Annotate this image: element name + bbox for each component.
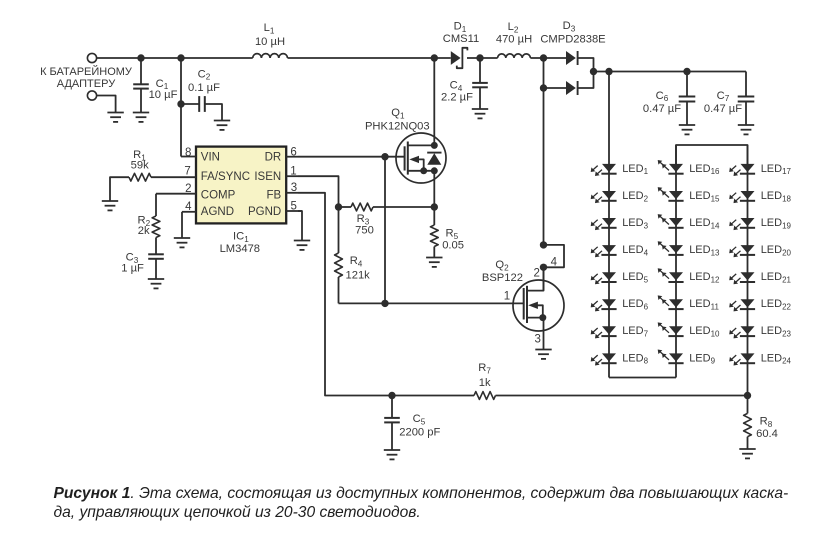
diode D1 [443, 20, 479, 68]
Q2 pin 1 label [504, 291, 510, 303]
LED LED15 [658, 187, 720, 203]
ground C7 [738, 125, 754, 134]
Q2 arrow lead [528, 302, 543, 318]
LED LED12 [658, 268, 720, 284]
Q2 gate bar [523, 288, 525, 320]
Q2 source lead [527, 317, 544, 319]
LED LED14 [658, 214, 720, 230]
svg-text:2: 2 [533, 268, 539, 280]
wire D3 branch down [543, 58, 545, 245]
wire slope riser [384, 157, 386, 304]
svg-text:121k: 121k [346, 270, 371, 282]
capacitor C2 [181, 68, 222, 120]
ground C3 [148, 279, 164, 288]
IC1 pin 2 stub [156, 183, 196, 195]
LED LED1 [591, 163, 649, 176]
wire L1 to D1 [288, 57, 451, 59]
inductor L1 [253, 22, 288, 58]
svg-text:10 µF: 10 µF [149, 89, 178, 101]
svg-text:59k: 59k [131, 160, 149, 172]
Q1 drain lead [408, 144, 435, 146]
wire L2 to D3 [530, 57, 566, 59]
LED LED7 [591, 325, 649, 338]
capacitor C6 [643, 72, 695, 126]
resistor R5 [430, 207, 464, 258]
IC1 pin 6 stub [286, 147, 298, 159]
Q1 source node [431, 167, 438, 174]
LED LED5 [591, 271, 649, 284]
node C2 tap [177, 100, 184, 107]
svg-text:750: 750 [355, 225, 374, 237]
LED LED6 [591, 298, 649, 311]
LED LED9 [658, 350, 716, 366]
node output rail left [590, 68, 597, 75]
wire gate drive rail [339, 302, 524, 304]
IC1 pin names left [201, 152, 250, 218]
input terminal plus [87, 53, 96, 62]
node C4 top [476, 54, 483, 61]
svg-text:1k: 1k [479, 377, 491, 389]
wire Q2 source to ground [543, 318, 545, 350]
IC1 pin names right [248, 152, 282, 218]
Q1 channel bar [407, 142, 409, 175]
svg-text:К БАТАРЕЙНОМУ: К БАТАРЕЙНОМУ [40, 65, 133, 78]
svg-text:3: 3 [291, 182, 297, 194]
ground C5 [384, 450, 400, 459]
svg-text:AGND: AGND [201, 206, 234, 218]
caption text [54, 485, 789, 521]
wire LED column 2 [675, 145, 677, 378]
LED LED22 [729, 298, 791, 311]
svg-text:ISEN: ISEN [254, 171, 281, 183]
svg-text:4: 4 [551, 257, 558, 269]
input terminal minus [87, 91, 96, 100]
svg-text:FB: FB [266, 189, 281, 201]
svg-text:да, управляющих цепочкой из 20: да, управляющих цепочкой из 20-30 светод… [54, 504, 421, 521]
ground R8 [739, 449, 755, 458]
LED LED24 [729, 352, 791, 365]
wire D3 upper out [578, 58, 594, 72]
svg-text:7: 7 [184, 166, 190, 178]
ground R5 [426, 258, 442, 267]
LED LED10 [658, 322, 720, 338]
IC1 pin 3 stub [286, 182, 298, 194]
svg-text:0.47 µF: 0.47 µF [643, 103, 681, 115]
svg-text:BSP122: BSP122 [482, 272, 523, 284]
node C6 top [683, 68, 690, 75]
IC1 pin 1 stub [286, 165, 298, 177]
diode D3 lower [544, 81, 578, 95]
wire DR to Q1 gate [298, 156, 405, 158]
svg-text:6: 6 [290, 147, 296, 159]
capacitor C1 [133, 58, 177, 113]
IC1 label [220, 231, 260, 256]
resistor R3 [339, 203, 435, 237]
LED LED23 [729, 325, 791, 338]
Q1 source lead [408, 170, 435, 172]
LED LED11 [658, 295, 720, 311]
ground C4 [472, 109, 488, 118]
node slope bottom [381, 300, 388, 307]
svg-text:1: 1 [290, 165, 296, 177]
wire LED top bracket [676, 145, 748, 168]
wire minus terminal to ground [97, 96, 116, 113]
svg-text:1: 1 [504, 291, 510, 303]
wire Q1 vertical [433, 58, 435, 207]
transistor Q1 body [365, 107, 446, 183]
wire D3 lower out [578, 72, 594, 89]
svg-text:5: 5 [290, 200, 296, 212]
LED LED20 [729, 244, 791, 257]
svg-text:8: 8 [185, 147, 191, 159]
LED LED4 [591, 244, 649, 257]
wire output rail [594, 71, 747, 73]
diode D3 upper [540, 20, 605, 65]
capacitor C7 [704, 72, 754, 126]
svg-text:VIN: VIN [201, 152, 220, 164]
svg-text:0.47 µF: 0.47 µF [704, 103, 742, 115]
wire LED bottom bracket [609, 377, 676, 379]
node LED column 1 top [605, 68, 612, 75]
svg-text:Рисунок 1. Эта схема, состояща: Рисунок 1. Эта схема, состоящая из досту… [54, 485, 789, 502]
svg-text:PGND: PGND [248, 206, 281, 218]
ground input [107, 113, 123, 122]
capacitor C3 [121, 252, 164, 279]
Q2 pin 3 label [534, 334, 540, 346]
IC1 pin 7 stub [151, 166, 196, 178]
svg-text:2200 pF: 2200 pF [399, 427, 440, 439]
svg-text:CMPD2838E: CMPD2838E [540, 33, 605, 45]
Q2 pin 2 label [533, 268, 539, 280]
svg-text:10 µH: 10 µH [255, 36, 285, 48]
Q2 pin4 loop [544, 245, 565, 269]
LED LED16 [658, 160, 720, 176]
svg-text:DR: DR [265, 152, 282, 164]
wire Q2 drain [543, 267, 545, 290]
Q1 arrow lead [409, 156, 423, 171]
node D3 bottom anode [540, 84, 547, 91]
svg-text:PHK12NQ03: PHK12NQ03 [365, 120, 430, 132]
Q1 drain node [431, 142, 438, 149]
node Q2 loop bottom [540, 264, 547, 271]
LED LED13 [658, 241, 720, 257]
Q1 gate bar [404, 146, 406, 170]
svg-text:470 µH: 470 µH [496, 33, 532, 45]
ground C2 [214, 121, 230, 130]
transistor Q2 body [482, 259, 564, 331]
IC1 pin 5 stub [286, 200, 302, 212]
node D3 top anode [540, 54, 547, 61]
ground C6 [679, 125, 695, 134]
LED LED18 [729, 190, 791, 203]
resistor R1 [110, 149, 151, 201]
resistor R4 [335, 207, 371, 303]
ground Q2 [535, 350, 551, 359]
Q2 source node [539, 314, 546, 321]
capacitor C5 [384, 396, 440, 451]
node C5 top [388, 392, 395, 399]
node R3 left [335, 203, 342, 210]
ground R1 [102, 201, 118, 210]
label battery adapter [40, 65, 133, 90]
wire LED column 3 [747, 145, 749, 396]
IC1 pin 8 stub [181, 147, 196, 159]
svg-text:0.05: 0.05 [442, 239, 464, 251]
resistor R7 [392, 362, 748, 399]
wire top rail [97, 57, 253, 59]
ground PGND [294, 211, 310, 250]
svg-text:2: 2 [185, 183, 191, 195]
wire D1 to L2 [467, 57, 498, 59]
node Q1 drain rail [431, 54, 438, 61]
LED LED19 [729, 217, 791, 230]
node R8 top [744, 392, 751, 399]
wire FB [298, 193, 392, 396]
LED LED17 [729, 163, 791, 176]
svg-text:COMP: COMP [201, 189, 236, 201]
node R5 top [431, 203, 438, 210]
LED LED21 [729, 271, 791, 284]
svg-text:FA/SYNC: FA/SYNC [201, 171, 250, 183]
resistor R2 [137, 194, 159, 255]
svg-text:2k: 2k [138, 225, 150, 237]
LED LED2 [591, 190, 649, 203]
svg-text:CMS11: CMS11 [443, 33, 479, 45]
wire ISEN [298, 176, 339, 207]
svg-text:3: 3 [534, 334, 540, 346]
ground C1 [133, 113, 149, 122]
svg-text:LM3478: LM3478 [220, 243, 260, 255]
node Q2 loop top [540, 241, 547, 248]
svg-text:2.2 µF: 2.2 µF [441, 91, 473, 103]
LED LED3 [591, 217, 649, 230]
Q2 channel bar [526, 286, 528, 323]
Q1 arrow node [420, 167, 427, 174]
Q1 body diode [427, 153, 441, 165]
svg-text:1 µF: 1 µF [121, 263, 144, 275]
svg-text:4: 4 [185, 201, 192, 213]
node C1 top [137, 54, 144, 61]
svg-text:АДАПТЕРУ: АДАПТЕРУ [57, 78, 116, 90]
svg-text:60.4: 60.4 [756, 428, 778, 440]
IC IC1 LM3478 body [196, 147, 286, 224]
resistor R8 [744, 396, 778, 450]
wire VIN branch [180, 58, 182, 157]
wire LED column 1 [608, 72, 610, 378]
capacitor C4 [441, 58, 488, 109]
Q2 drain lead [527, 267, 544, 290]
node slope comp tap [381, 153, 388, 160]
inductor L2 [496, 21, 532, 58]
ground AGND [174, 212, 190, 248]
svg-text:0.1 µF: 0.1 µF [188, 82, 220, 94]
IC1 pin 4 stub [182, 201, 196, 213]
node C2 branch [177, 54, 184, 61]
LED LED8 [591, 352, 649, 365]
